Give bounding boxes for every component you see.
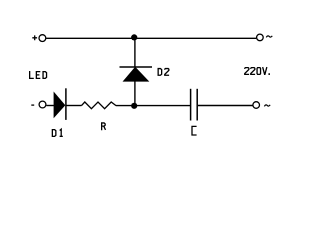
wire bottom segment 1 (circle to D1) [46, 105, 54, 107]
capacitor C left plate [190, 89, 192, 121]
node junction bottom [131, 103, 137, 109]
wire top horizontal [46, 37, 256, 39]
label 220V. [245, 68, 249, 75]
diode D2 cathode bar [120, 66, 153, 68]
diode D2 triangle [123, 67, 148, 81]
label D2 [158, 69, 162, 76]
terminal - (bottom-left minus sign) [31, 104, 34, 106]
tilde symbol bottom-right [264, 105, 270, 107]
node junction top [131, 34, 137, 40]
label LED [30, 71, 34, 78]
terminal ~ bottom-right circle [253, 102, 260, 109]
tilde symbol top-right [266, 36, 272, 38]
capacitor C right plate [196, 89, 198, 121]
label C (drawn square C) [192, 126, 197, 135]
diode D1 triangle (LED) [54, 93, 65, 118]
terminal ~ top-right circle [257, 34, 264, 41]
label D1 [52, 130, 56, 137]
terminal + (top-left plus sign) [32, 35, 37, 40]
label R [102, 123, 106, 130]
terminal circle top-left [39, 35, 46, 42]
diode D1 cathode bar [65, 88, 67, 120]
wire vertical lower (D2 anode to bottom node) [134, 81, 136, 106]
wire bottom segment 4 (capacitor to terminal) [198, 105, 253, 107]
wire vertical upper (node to D2 cathode) [134, 38, 136, 67]
terminal circle bottom-left [39, 101, 46, 108]
wire bottom segment 2 (D1 to resistor) [67, 105, 82, 107]
resistor R zigzag [82, 102, 117, 109]
wire bottom segment 3 (resistor to capacitor) [116, 105, 191, 107]
